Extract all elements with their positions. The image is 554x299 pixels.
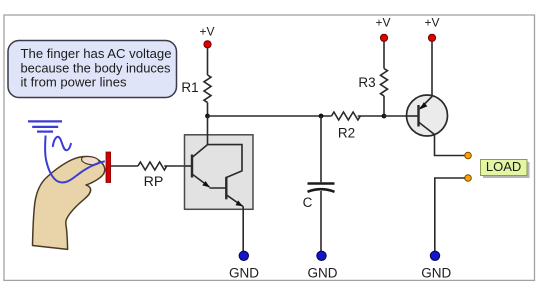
svg-text:RP: RP — [144, 174, 164, 190]
darlington module box — [185, 135, 254, 210]
+V supply left — [199, 25, 214, 48]
svg-text:GND: GND — [229, 265, 259, 280]
wire R3 to node C — [383, 96, 385, 116]
svg-text:R2: R2 — [338, 126, 355, 141]
svg-text:R3: R3 — [358, 75, 375, 90]
svg-text:+V: +V — [424, 16, 439, 30]
resistor RP — [138, 162, 167, 170]
Q2 emitter arrow — [236, 200, 243, 206]
resistor R3 — [381, 69, 388, 96]
wire Q3 collector to load terminal — [435, 135, 465, 156]
transistor Q2 — [208, 145, 244, 207]
load terminal top — [465, 152, 472, 159]
wire +V to Q3 emitter — [431, 41, 433, 97]
earth antenna symbol — [28, 121, 62, 131]
resistor R2 — [332, 112, 361, 120]
wire +V to R1 — [207, 48, 209, 75]
wire R1 to node A — [207, 102, 209, 116]
wire base lead into module — [185, 165, 193, 167]
svg-text:R1: R1 — [181, 80, 198, 95]
node B junction — [319, 114, 324, 119]
wire electrode to RP — [111, 165, 138, 167]
load terminal bottom — [465, 175, 472, 182]
wire node C to Q3 base — [384, 115, 419, 117]
AC pickup wire (blue) — [45, 136, 105, 183]
svg-text:The finger has AC voltage: The finger has AC voltage — [21, 46, 172, 61]
svg-text:+V: +V — [375, 16, 390, 30]
wire capacitor to GND — [320, 191, 322, 252]
svg-text:because the body induces: because the body induces — [21, 60, 171, 75]
wire +V to R3 — [383, 41, 385, 68]
wire node A to node B (main rail) — [208, 115, 332, 117]
ground 3 — [421, 251, 451, 280]
LOAD box — [481, 160, 530, 179]
svg-text:GND: GND — [308, 265, 338, 280]
node C junction — [382, 114, 387, 119]
svg-text:GND: GND — [421, 265, 451, 280]
wire RP to Q1 base — [164, 165, 184, 167]
ground 1 — [229, 251, 259, 280]
svg-text:it from power lines: it from power lines — [21, 75, 127, 90]
wire Q1 emitter to Q2 base — [210, 187, 227, 189]
svg-text:LOAD: LOAD — [486, 160, 521, 174]
wire R2 to node C — [358, 115, 384, 117]
Q3 emitter arrow — [419, 102, 427, 109]
transistor Q3 — [406, 95, 448, 136]
AC sine symbol — [53, 137, 71, 150]
resistor R1 — [204, 75, 211, 102]
annotation bubble — [8, 41, 177, 98]
wire load return to GND — [435, 178, 465, 252]
fingernail — [82, 157, 100, 165]
wire node B to capacitor — [320, 116, 322, 182]
transistor Q1 — [192, 145, 210, 187]
wire Q2 emitter to GND — [242, 207, 244, 252]
wire node A down into module — [207, 116, 209, 145]
touch plate electrode — [106, 152, 111, 183]
+V supply middle — [375, 16, 390, 42]
+V supply right — [424, 16, 439, 42]
node A junction — [205, 114, 210, 119]
ground 2 — [308, 251, 338, 280]
svg-text:+V: +V — [199, 25, 214, 39]
capacitor C — [308, 184, 335, 192]
svg-text:C: C — [303, 195, 313, 210]
Q1 emitter arrow — [202, 181, 210, 187]
hand — [33, 156, 105, 249]
